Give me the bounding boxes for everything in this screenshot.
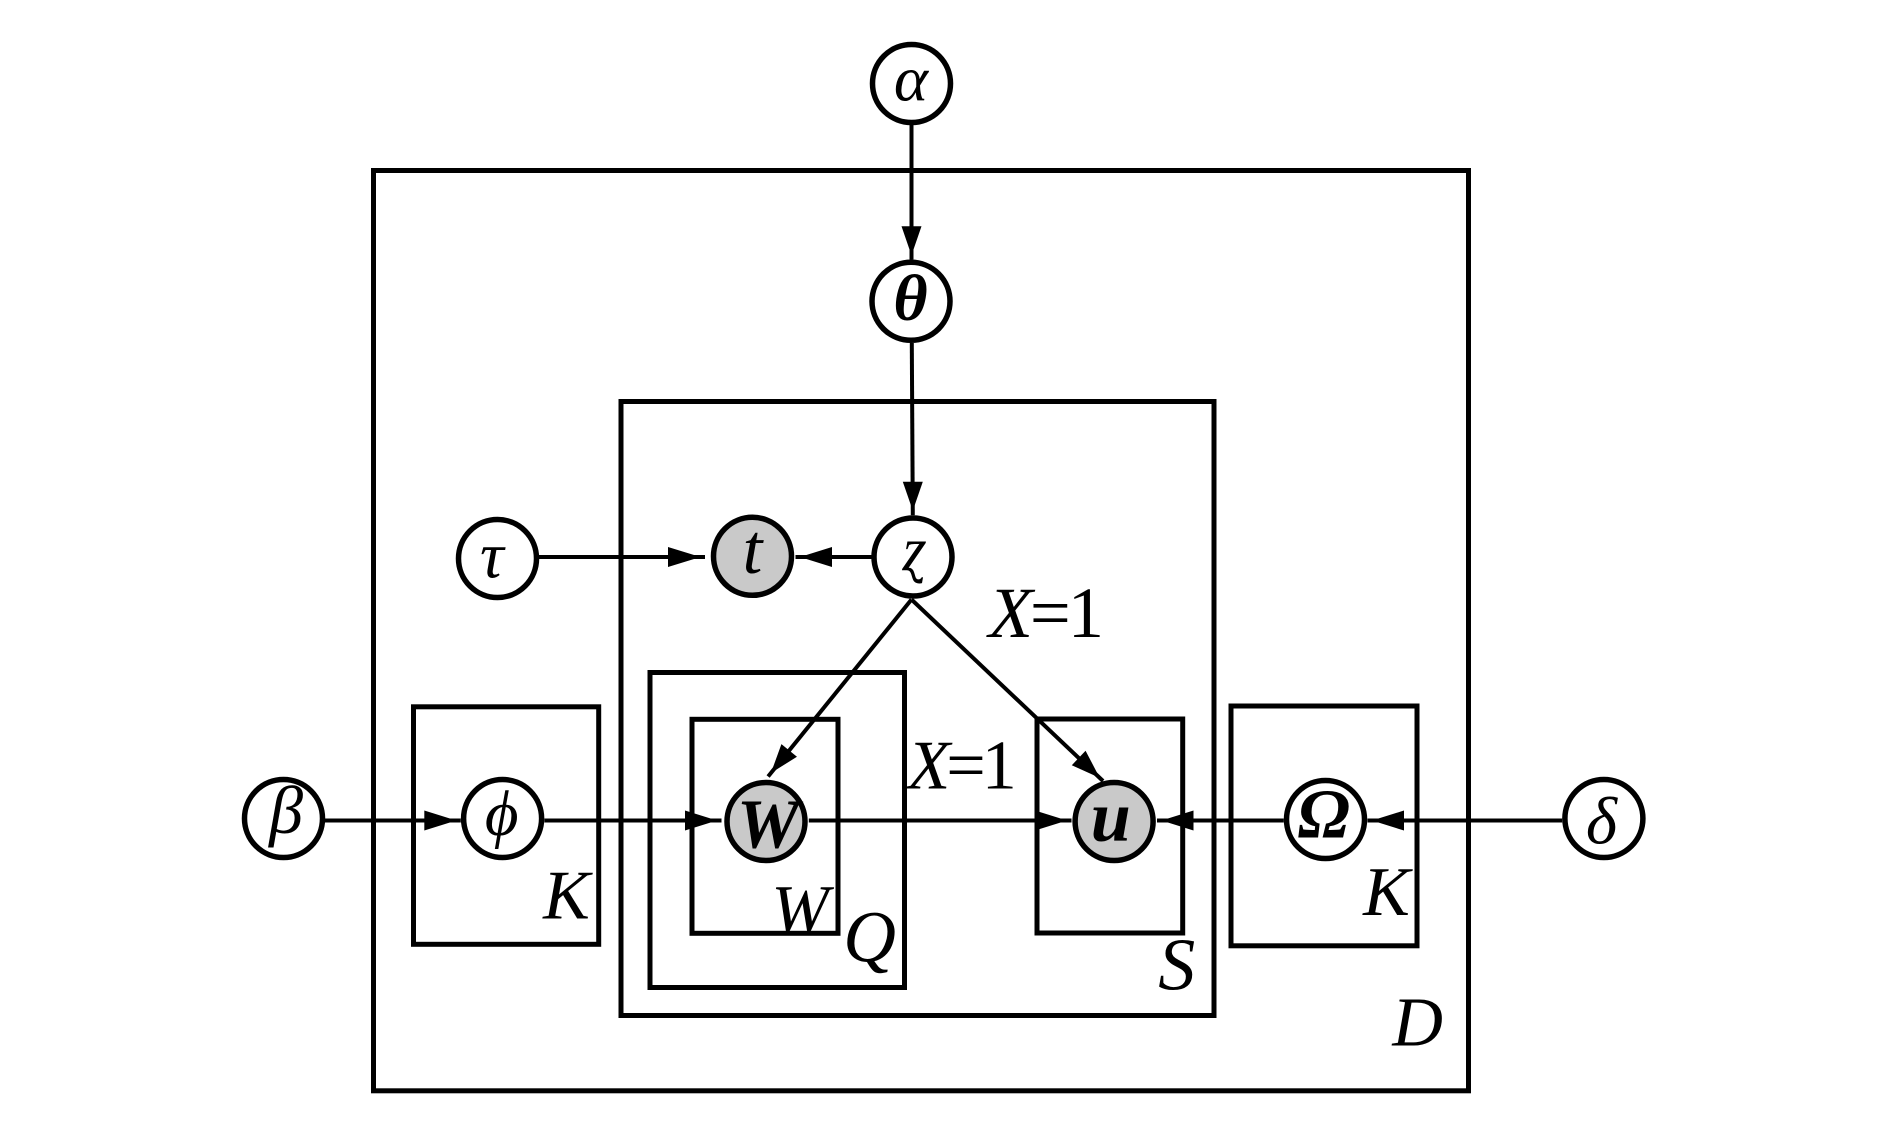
svg-text:α: α (894, 44, 930, 116)
plate K right (1231, 706, 1417, 946)
svg-text:θ: θ (893, 262, 927, 335)
svg-text:u: u (1091, 776, 1131, 856)
svg-text:τ: τ (480, 520, 506, 593)
plate K left (414, 707, 599, 945)
svg-text:X=1: X=1 (905, 727, 1013, 804)
svg-text:t: t (743, 511, 765, 589)
wire W to u (809, 819, 1072, 823)
wire alpha to theta (910, 125, 914, 260)
svg-text:δ: δ (1586, 784, 1619, 858)
node delta (1565, 780, 1643, 858)
svg-text:ɀ: ɀ (902, 516, 927, 584)
wire delta to Omega (1368, 819, 1563, 823)
wire beta to phi (325, 819, 461, 823)
svg-text:D: D (1391, 985, 1443, 1062)
wire phi to W (544, 819, 721, 823)
node tau (459, 520, 537, 598)
wire theta to z (912, 343, 913, 515)
wire z to u diagonal (912, 600, 1104, 782)
plate D (374, 171, 1469, 1091)
node W shaded (727, 783, 805, 861)
node alpha (873, 45, 951, 123)
wire z to t (796, 555, 872, 559)
wire tau to t (539, 555, 705, 559)
svg-text:β: β (267, 772, 303, 848)
node Omega (1287, 781, 1365, 859)
node phi (464, 780, 542, 858)
plate S (621, 402, 1214, 1016)
node u shaded (1075, 783, 1153, 861)
svg-text:K: K (542, 858, 593, 935)
svg-text:K: K (1362, 854, 1413, 931)
svg-text:Q: Q (843, 897, 896, 978)
plate u box (1037, 719, 1183, 933)
wire Omega to u (1157, 819, 1284, 823)
svg-text:Ω: Ω (1298, 777, 1350, 854)
svg-text:W: W (771, 872, 834, 948)
plate W (692, 719, 838, 933)
plate Q (650, 673, 905, 988)
node z (874, 518, 952, 596)
node t shaded (714, 517, 792, 595)
svg-text:X=1: X=1 (986, 572, 1101, 653)
node theta (872, 262, 950, 340)
svg-text:ϕ: ϕ (485, 778, 519, 850)
svg-text:W: W (737, 787, 804, 864)
node beta (245, 780, 323, 858)
wire z to W diagonal (768, 600, 911, 777)
svg-text:S: S (1158, 924, 1195, 1006)
